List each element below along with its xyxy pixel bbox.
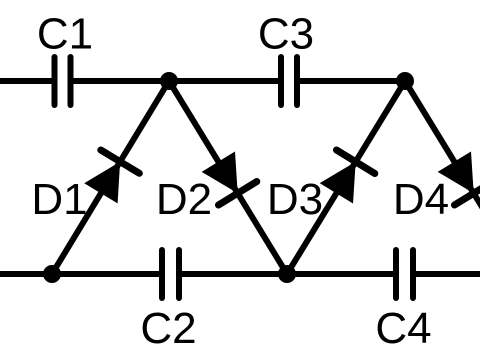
junction node at top rail / D1 / D2 — [160, 72, 178, 90]
svg-text:C4: C4 — [375, 304, 431, 353]
wire top rail between C3 and node B — [300, 78, 406, 84]
svg-text:C1: C1 — [37, 10, 93, 59]
junction node at top rail / D3 / D4 — [396, 72, 414, 90]
wire top rail left of C1 — [0, 78, 52, 84]
svg-text:D4: D4 — [393, 175, 449, 224]
wire bottom rail between C2 and C4 — [182, 271, 394, 277]
diode D4 — [405, 81, 480, 274]
svg-text:D1: D1 — [31, 175, 87, 224]
diode D1 — [52, 81, 169, 274]
svg-text:C2: C2 — [140, 304, 196, 353]
wire bottom rail right of C4 — [416, 271, 480, 277]
capacitor C2 — [162, 250, 179, 298]
diode D3 — [287, 81, 405, 274]
junction node at bottom rail / D1 — [43, 265, 61, 283]
svg-text:C3: C3 — [258, 10, 314, 59]
junction node at bottom rail / D2 / D3 — [278, 265, 296, 283]
svg-text:D2: D2 — [156, 175, 212, 224]
wire top rail between C1 and C3 — [73, 78, 279, 84]
capacitor C1 — [55, 57, 71, 105]
capacitor C4 — [396, 250, 413, 298]
wire bottom rail left of node C — [0, 271, 52, 277]
svg-text:D3: D3 — [267, 175, 323, 224]
diode D2 — [169, 81, 287, 274]
capacitor C3 — [281, 57, 297, 105]
wire bottom rail between node C and C2 — [52, 271, 160, 277]
